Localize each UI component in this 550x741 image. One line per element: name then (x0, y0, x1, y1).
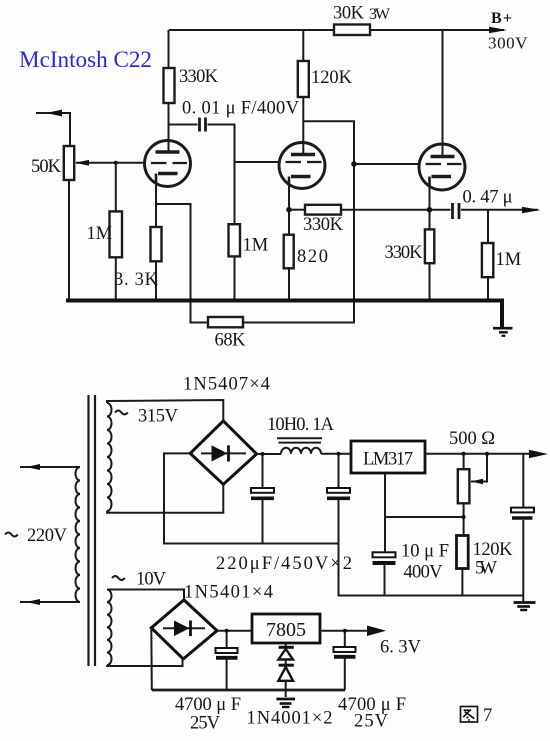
wire top B+ rail left part (169, 29, 334, 31)
wire bridge1 minus to long rail (164, 453, 339, 543)
wire 120K bottom to V2 plate (302, 97, 304, 155)
wire 330K to V3 cathode node (341, 209, 430, 211)
resistor 30K 3W (horizontal) (334, 25, 370, 36)
capacitor 0.01uF/400V (200, 118, 206, 132)
svg-text:McIntosh C22: McIntosh C22 (19, 47, 152, 72)
ground (PSU right) (514, 603, 536, 611)
wire V3 plate to rail (442, 30, 444, 157)
capacitor 10uF 400V (373, 552, 396, 595)
capacitor 4700uF 25V no.2 (334, 629, 356, 690)
diode 1N4001 no.2 (278, 660, 293, 698)
svg-text:25V: 25V (354, 712, 389, 732)
arrowhead B+ (489, 27, 507, 33)
label ~220V (5, 533, 18, 537)
svg-text:6. 3V: 6. 3V (380, 638, 422, 658)
svg-text:B+: B+ (491, 10, 512, 27)
wire 820 bottom to rail (288, 268, 290, 299)
arrowhead output (522, 207, 541, 214)
arrowhead primary bottom (26, 599, 40, 605)
triode V1 (145, 141, 191, 187)
wire cap to V2 grid line (208, 125, 235, 225)
wire output node to 1M (487, 210, 489, 243)
svg-text:LM317: LM317 (363, 450, 413, 470)
node V3 cathode (427, 207, 433, 213)
wire 120K to rail (461, 569, 463, 596)
capacitor 0.47u (453, 203, 460, 219)
regulator 7805 (252, 614, 320, 643)
svg-text:7: 7 (483, 706, 492, 726)
arrowhead 6.3V output (367, 626, 386, 637)
wire 68K right leg up to V3 grid node (243, 164, 354, 323)
svg-text:1N5401×4: 1N5401×4 (184, 583, 273, 603)
svg-text:7805: 7805 (266, 619, 306, 641)
node at wiper wire (114, 161, 118, 165)
svg-text:1N4001×2: 1N4001×2 (247, 709, 333, 729)
wire 50K bottom to ground rail (68, 180, 70, 299)
bridge rectifier 1N5407x4 (190, 421, 256, 484)
svg-text:1N5407×4: 1N5407×4 (183, 375, 270, 395)
wire 1M bottom to rail (234, 256, 236, 299)
svg-text:500 Ω: 500 Ω (449, 429, 495, 449)
svg-text:4700 μ F: 4700 μ F (175, 695, 241, 715)
svg-text:10V: 10V (136, 570, 167, 590)
node V3 grid junction (351, 161, 357, 167)
svg-text:330K: 330K (303, 215, 344, 235)
wire inductor to LM317 (321, 453, 351, 455)
label ~315V (115, 411, 128, 415)
svg-text:330K: 330K (385, 243, 424, 263)
inductor 10H 0.1A (277, 438, 322, 454)
transformer primary winding ~220V (76, 467, 81, 602)
ground rail (thick) (66, 299, 504, 303)
transformer secondary 10V winding (107, 590, 112, 666)
svg-text:120K: 120K (311, 68, 353, 88)
svg-text:10H0. 1A: 10H0. 1A (267, 415, 335, 435)
svg-text:5W: 5W (475, 559, 498, 579)
wire 3.3K bottom to rail (155, 261, 157, 299)
svg-text:1M: 1M (87, 224, 113, 244)
potentiometer 500ohm (458, 452, 489, 536)
wire cathode branch to 68K riser (156, 204, 191, 317)
resistor 120K 5W (457, 536, 469, 569)
wire V3 grid stub (354, 163, 420, 165)
bridge rectifier 1N5401x4 (151, 600, 217, 659)
label figure 7 (drawn CJK char) (461, 707, 478, 723)
capacitor 220uF/450V no.1 (251, 452, 274, 544)
wire output (461, 209, 538, 211)
diode 1N4001 no.1 (278, 643, 293, 660)
bottom rail (152, 689, 345, 692)
wiper arrow 50K (76, 162, 89, 164)
resistor 820 (284, 235, 294, 269)
svg-text:400V: 400V (404, 563, 444, 583)
svg-text:315V: 315V (138, 407, 179, 427)
arrowhead primary top (26, 464, 40, 470)
wire negative rail down and right (339, 544, 524, 596)
resistor 1M (input) (110, 211, 123, 257)
capacitor 220uF/450V no.2 (327, 452, 350, 544)
wire 7805 output (320, 630, 370, 632)
wire grid node down to 1M (115, 163, 117, 212)
wire bridge2 minus down to bottom rail (150, 628, 153, 690)
wire V1 cathode down (155, 183, 157, 228)
ground (7805) (276, 699, 295, 707)
resistor 1M (output) (482, 243, 493, 277)
svg-text:330K: 330K (179, 67, 219, 87)
wire 1M bottom to ground rail (115, 257, 117, 299)
wire V3 cathode down (429, 177, 431, 230)
resistor 1M (V2 grid) (229, 224, 241, 256)
wire cathode node to 330K (289, 209, 305, 211)
wire cathode node to output cap (430, 209, 451, 211)
ground (top section) (493, 328, 513, 336)
wire V2 grid stub (235, 161, 280, 163)
wire V2 plate node to V3 grid (303, 121, 354, 164)
resistor 330K (V3 cathode) (425, 229, 434, 263)
capacitor 4700uF 25V no.1 (216, 629, 238, 690)
label ~10V (112, 576, 125, 580)
wire 330K bottom to V1 plate (168, 103, 170, 153)
wire top B+ rail right part (370, 29, 504, 31)
triode V2 (279, 143, 325, 189)
wire 315V top lead to bridge (107, 400, 223, 421)
node V2 cathode (286, 207, 292, 213)
wire rail to 330K top (168, 30, 170, 68)
svg-text:30K: 30K (333, 4, 365, 24)
svg-text:1M: 1M (496, 250, 522, 270)
wire 330K bottom to rail (429, 263, 431, 299)
arrowhead input (46, 110, 62, 117)
svg-text:10 μ F: 10 μ F (401, 542, 449, 562)
svg-text:0. 01 μ F/400V: 0. 01 μ F/400V (182, 99, 300, 119)
wire LM317 output (425, 453, 535, 455)
transformer secondary 315V winding (107, 403, 112, 511)
wire 10V bottom lead to bridge (107, 659, 183, 666)
resistor 68K (feedback) (208, 317, 243, 327)
wire plate node to coupling cap (169, 124, 198, 126)
potentiometer 50K (64, 146, 74, 180)
wire 68K left leg below rail (191, 317, 209, 323)
capacitor output filter (right) (511, 454, 534, 601)
svg-text:820: 820 (297, 247, 328, 267)
wire ADJ to 10uF (384, 517, 386, 552)
svg-text:50K: 50K (31, 157, 62, 177)
svg-text:3W: 3W (369, 6, 391, 23)
resistor 330K (horizontal) (305, 205, 341, 215)
wire 50K wiper to V1 grid (89, 162, 145, 164)
wire LM317 ADJ down (385, 473, 464, 517)
svg-text:220V: 220V (27, 526, 68, 546)
wire rail to 120K (302, 30, 304, 61)
wire input arrow to 50K pot (36, 113, 70, 146)
wire 315V bottom lead to bridge (107, 484, 223, 513)
svg-text:120K: 120K (473, 540, 514, 560)
transformer core (89, 395, 96, 666)
wire V2 cathode down (288, 177, 290, 235)
svg-text:1M: 1M (243, 236, 269, 256)
svg-text:220μF/450V×2: 220μF/450V×2 (216, 554, 352, 574)
wire bridge2 plus to 7805 (217, 630, 252, 632)
wire 10V top lead to bridge (107, 590, 184, 600)
wire primary top lead (20, 466, 80, 468)
wire primary bottom lead (20, 601, 80, 603)
svg-text:68K: 68K (215, 331, 247, 351)
resistor 3.3K (151, 227, 162, 261)
svg-text:3. 3K: 3. 3K (114, 270, 159, 290)
resistor 120K (V2 plate load) (298, 61, 309, 97)
wire 1M bottom to rail (487, 277, 489, 299)
resistor 330K (V1 plate load) (164, 68, 175, 103)
triode V3 (419, 144, 465, 190)
svg-text:25V: 25V (190, 714, 221, 734)
wire bridge1 plus to filter (257, 453, 281, 455)
regulator LM317 (351, 441, 425, 473)
arrowhead 500ohm output (529, 450, 548, 459)
svg-text:300V: 300V (488, 34, 528, 53)
svg-text:0. 47 μ: 0. 47 μ (463, 188, 513, 208)
wire rail to ground symbol (500, 301, 504, 328)
